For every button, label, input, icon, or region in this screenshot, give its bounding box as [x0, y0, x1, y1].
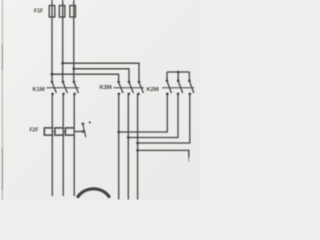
contactor K3M pole 1: [117, 81, 123, 96]
F2F lever dot: [82, 123, 85, 126]
motor M circle (cut off at bottom): [78, 189, 109, 197]
wire branch L2 to K3M pole3: [63, 63, 139, 81]
svg-text:K1M: K1M: [33, 87, 45, 93]
wire F2F pole2 to motor: [62, 135, 64, 196]
wire K1M pole2 to F2F: [62, 94, 64, 128]
contactor K2M pole 3: [188, 79, 194, 95]
K3M linkage bar: [114, 87, 145, 89]
node control tap on K3M pole3 lead: [136, 149, 139, 152]
K2M linkage bar: [162, 87, 194, 89]
contactor K1M pole 2: [62, 81, 68, 96]
wire tie K2M pole3 to K3M pole3: [138, 94, 190, 143]
F2F aux dot: [89, 121, 91, 123]
wire L2 vertical (x=63): [62, 0, 64, 81]
K1M linkage bar: [47, 87, 80, 89]
F2F element links: [53, 131, 65, 133]
node K3M pole3 / K2M pole3 tie: [136, 142, 139, 145]
wire K3M pole2 down to motor: [127, 94, 129, 200]
wire branch L3 to K3M pole2: [74, 69, 129, 82]
wire control tap fading stub: [188, 158, 190, 162]
fuse F1F pole 3: [70, 6, 76, 18]
svg-text:K2M: K2M: [147, 87, 159, 93]
contactor K3M pole 3: [137, 81, 143, 96]
svg-text:F2F: F2F: [30, 128, 39, 134]
wire K1M pole3 to F2F: [73, 94, 75, 128]
F2F wire through element1: [51, 128, 53, 135]
wire K3M pole3 down to motor: [137, 94, 139, 200]
node on star bridge: [177, 71, 180, 74]
K2M star bridge bar: [167, 72, 189, 80]
F2F trip arrowhead: [82, 130, 86, 133]
svg-text:K3M: K3M: [100, 85, 112, 91]
node K3M pole1 / K2M pole1 tie: [117, 131, 120, 134]
fuse F1F pole 1: [49, 6, 55, 18]
node on L3 feeding K3M pole2: [72, 67, 75, 70]
wire K3M pole1 down to motor: [118, 94, 120, 200]
F2F wire through element3: [73, 128, 75, 135]
wire branch L1 to K3M pole1: [52, 74, 119, 81]
F2F wire through element2: [62, 128, 64, 135]
node on L2 feeding K3M pole3: [61, 62, 64, 65]
contactor K1M pole 1: [51, 81, 57, 96]
page edge line: [1, 0, 3, 200]
wire L3 vertical (x=74): [73, 0, 75, 81]
contactor K2M pole 2: [177, 79, 183, 95]
contactor K3M pole 2: [128, 81, 134, 96]
contactor K2M pole 1: [166, 79, 172, 95]
wire K1M pole1 to F2F: [51, 94, 53, 128]
F2F trip line: [74, 131, 84, 133]
node on L1 feeding K3M pole1: [51, 73, 54, 76]
page edge darker segment: [1, 44, 3, 190]
node K3M pole2 / K2M pole2 tie: [127, 136, 130, 139]
svg-text:F1F: F1F: [34, 8, 43, 14]
overload relay F2F element 1: [44, 128, 53, 135]
overload relay F2F element 2: [55, 128, 64, 135]
overload relay F2F element 3: [65, 128, 74, 135]
wire tie K2M pole1 to K3M pole1: [119, 94, 168, 132]
wire tie K2M pole2 to K3M pole2: [128, 94, 178, 138]
fuse F1F pole 2: [59, 6, 65, 18]
wire control-circuit tap: [138, 150, 189, 157]
contactor K1M pole 3: [73, 81, 79, 96]
wire L1 vertical (x=52): [51, 0, 53, 81]
wire F2F pole3 to motor: [73, 135, 75, 196]
wire F2F pole1 to motor: [51, 135, 53, 196]
F2F trip lever: [83, 124, 86, 137]
